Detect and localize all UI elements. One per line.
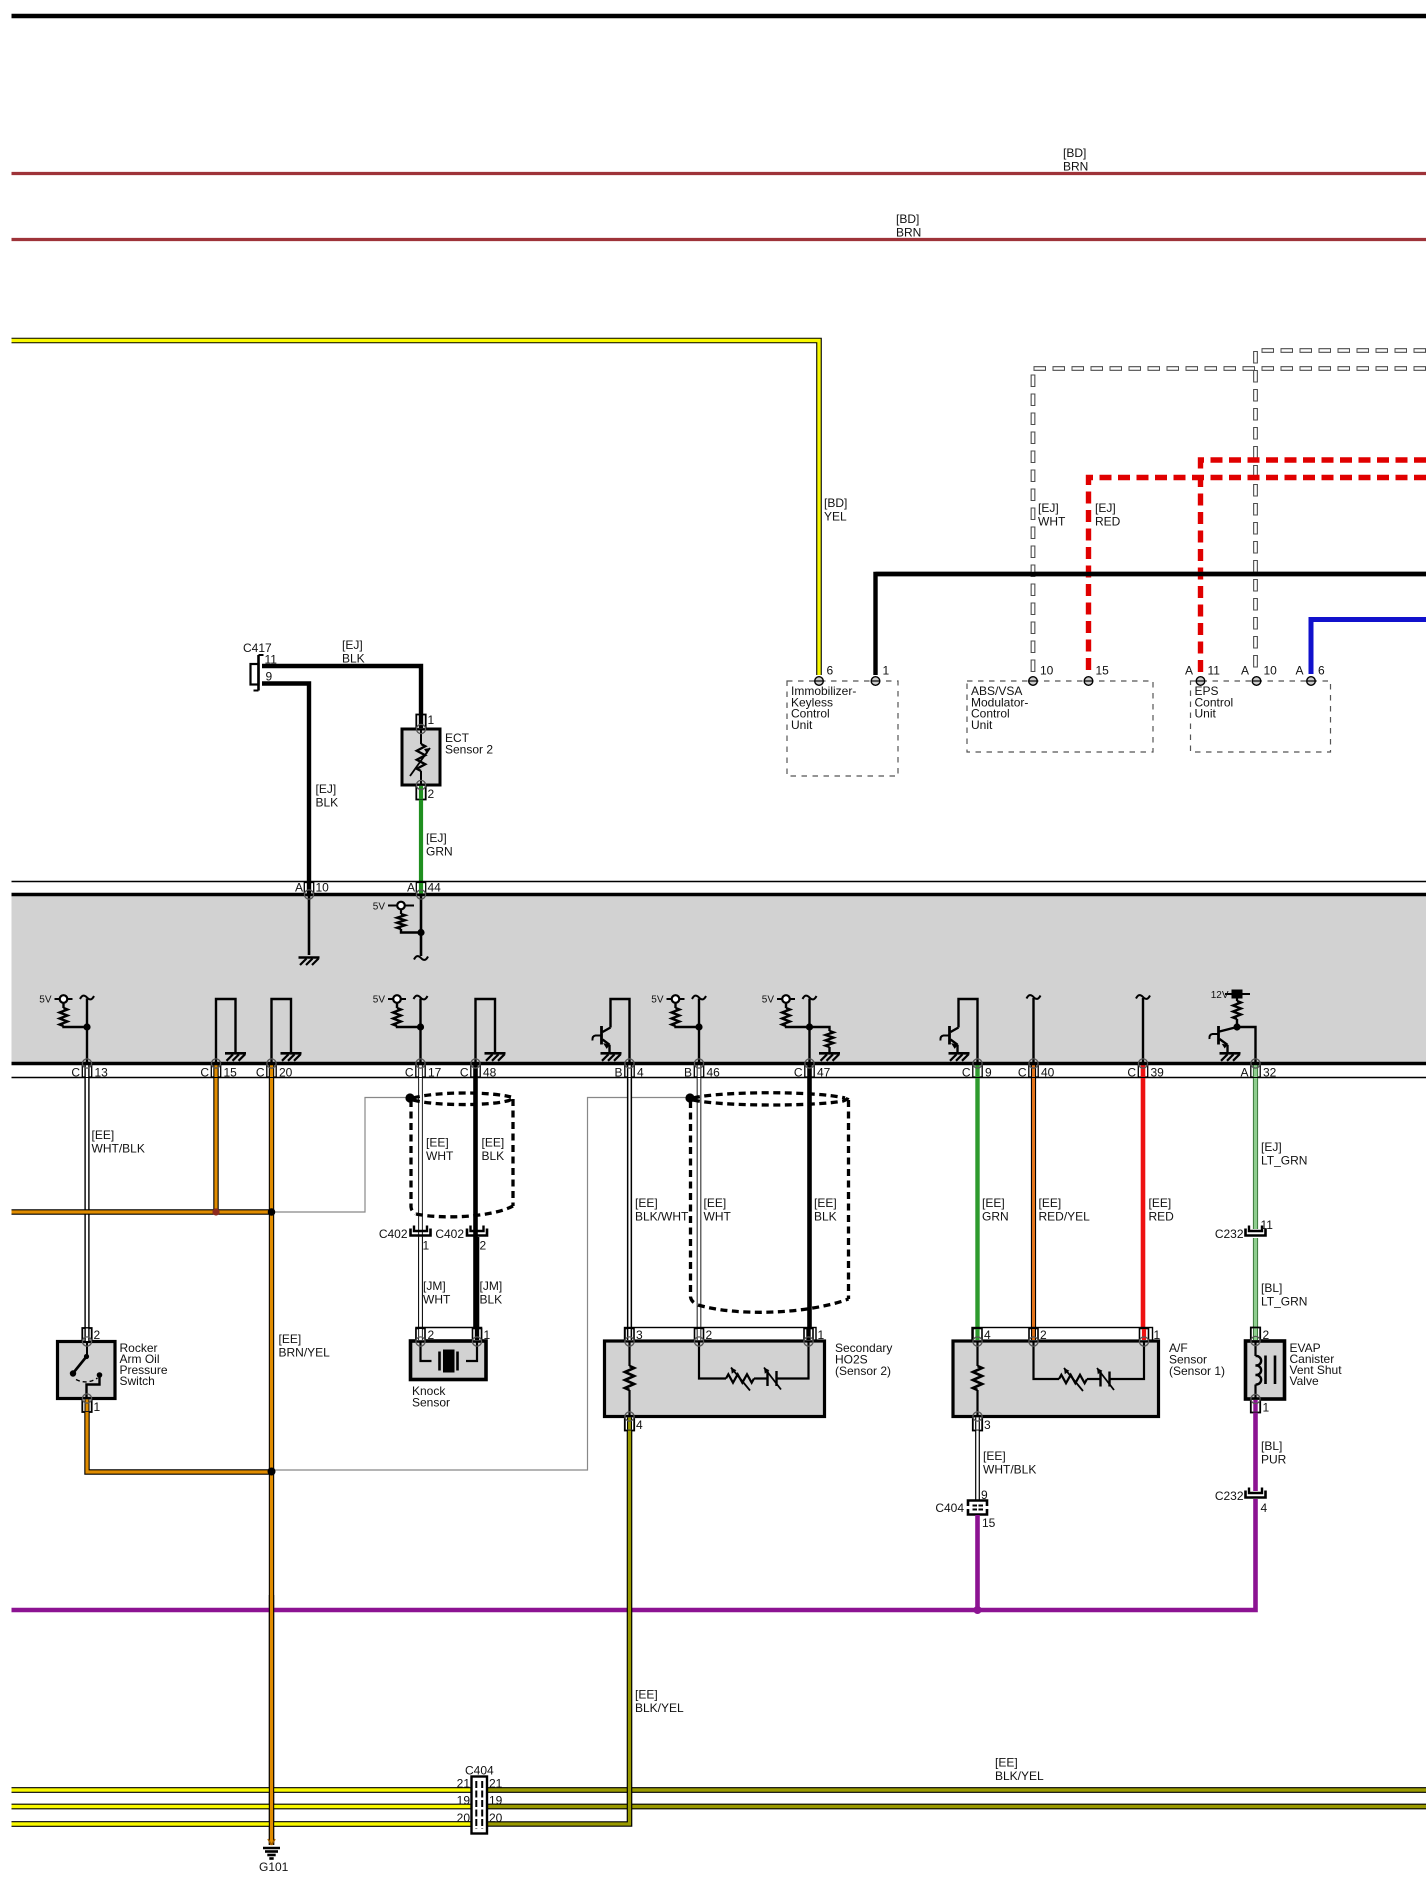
svg-text:GRN: GRN [426,845,453,859]
svg-text:BLK: BLK [342,652,365,666]
svg-text:B: B [614,1066,622,1080]
ECM B46 internal 5V pull-up [692,996,706,1000]
wire: [EE] WHT/BLK C13 to Rocker switch pin 2 [84,1078,89,1328]
ECM C9 internal transistor Q [959,999,978,1064]
svg-text:2: 2 [1040,1328,1047,1342]
svg-text:11: 11 [1208,664,1221,678]
svg-text:C: C [1127,1066,1136,1080]
shield (Secondary HO2S) [693,1093,845,1098]
svg-text:[EE]: [EE] [635,1688,658,1702]
svg-text:15: 15 [982,1516,996,1530]
svg-text:(Sensor 2): (Sensor 2) [835,1364,891,1378]
wire: bold dashed [EJ] RED to ABS/VSA pin 15 [1089,478,1426,675]
wire: [EE] BLK/WHT B4 to Secondary HO2S pin 3 [627,1078,632,1328]
svg-text:21: 21 [489,1777,503,1791]
junction C20/feed [268,1208,276,1216]
svg-text:4: 4 [637,1066,644,1080]
svg-text:5V: 5V [373,995,386,1006]
svg-text:47: 47 [817,1066,831,1080]
svg-text:BLK/WHT: BLK/WHT [635,1210,689,1224]
svg-text:C232: C232 [1215,1227,1244,1241]
svg-text:C: C [405,1066,414,1080]
pin C15 (ECM) [211,1065,220,1077]
wire: orange feed from left edge [12,1209,272,1214]
svg-text:Valve: Valve [1290,1374,1319,1388]
svg-text:[EJ]: [EJ] [426,831,447,845]
svg-text:Unit: Unit [791,718,813,732]
svg-text:2: 2 [428,787,435,801]
svg-text:[EE]: [EE] [92,1128,115,1142]
svg-text:WHT: WHT [426,1149,454,1163]
pin 4 (A/F) [973,1329,982,1342]
wire: purple bus [12,1499,1256,1610]
junction at C20 wire [268,1468,276,1476]
svg-text:9: 9 [985,1066,992,1080]
wire: [EJ] BLK from C417 pin 11 to ECT Sensor 2 pin 1 [262,666,421,714]
pin A6 (EPS) [1307,677,1316,686]
svg-text:RED/YEL: RED/YEL [1039,1210,1091,1224]
sensor: ECT Sensor 2 [402,729,440,785]
svg-text:C: C [1018,1066,1027,1080]
svg-text:[EE]: [EE] [704,1196,727,1210]
junction purple bus / C404 branch [974,1606,982,1614]
svg-text:BLK: BLK [482,1149,505,1163]
svg-text:BRN/YEL: BRN/YEL [279,1346,331,1360]
node A10 (ECM) : ground inside [308,896,311,955]
svg-text:[BD]: [BD] [896,212,919,226]
svg-text:B: B [684,1066,692,1080]
svg-text:WHT/BLK: WHT/BLK [92,1142,145,1156]
svg-text:BLK: BLK [480,1293,503,1307]
pin 3 (HO2S) [625,1329,634,1342]
svg-text:5V: 5V [373,902,386,913]
svg-text:C404: C404 [465,1764,494,1778]
svg-text:A: A [1295,664,1303,678]
svg-text:3: 3 [984,1418,991,1432]
svg-text:4: 4 [984,1328,991,1342]
svg-text:BLK: BLK [316,796,339,810]
svg-text:[BD]: [BD] [824,496,847,510]
wire: [EE] RED C39 to A/F sensor pin 1 [1141,1078,1146,1328]
connector C404 pins 21/19/20 [472,1777,488,1834]
ECM C17 internal 5V pull-up [414,996,428,1000]
svg-text:13: 13 [95,1066,109,1080]
svg-text:21: 21 [457,1777,471,1791]
svg-text:15: 15 [1096,664,1110,678]
pin 3 (A/F) [973,1417,982,1431]
svg-text:[EJ]: [EJ] [342,638,363,652]
pin 6 (Immobilizer) [815,677,824,686]
wire: [EE] BLK/YEL bus 21 (right) [488,1787,1426,1793]
pin C40 (ECM) [1029,1065,1038,1077]
svg-text:C: C [794,1066,803,1080]
svg-text:[EJ]: [EJ] [1261,1140,1282,1154]
ECM A32 internal 12V transistor driver [1232,990,1243,999]
svg-text:12V: 12V [1211,990,1229,1001]
svg-text:2: 2 [1263,1328,1270,1342]
svg-text:BLK/YEL: BLK/YEL [635,1701,684,1715]
svg-text:GRN: GRN [982,1210,1009,1224]
svg-text:[EJ]: [EJ] [316,782,337,796]
wire: bold dashed red to EPS pin A11 [1201,460,1426,674]
pin 2 (Knock Sensor) [416,1329,425,1342]
pin C20 (ECM) [267,1065,276,1077]
wire: [EE] BLK C47 to Secondary HO2S pin 1 [807,1078,812,1328]
pin A11 (EPS) [1196,677,1205,686]
svg-text:17: 17 [428,1066,442,1080]
connector C402 pin 1 [411,1229,431,1236]
svg-text:46: 46 [707,1066,721,1080]
svg-text:20: 20 [279,1066,293,1080]
svg-text:20: 20 [489,1811,503,1825]
svg-text:[EE]: [EE] [995,1756,1018,1770]
ECM B4 internal transistor Q [611,999,630,1064]
svg-text:[EJ]: [EJ] [1095,501,1116,515]
pin 2 (HO2S) [695,1329,704,1342]
wire: [EE] RED/YEL C40 to A/F sensor pin 2 [1031,1078,1036,1328]
node A44 (ECM) : 5V reference [420,896,423,956]
pin 4 (HO2S) [625,1417,634,1431]
svg-text:Unit: Unit [971,718,993,732]
pin C39 (ECM) [1138,1065,1147,1077]
svg-text:15: 15 [224,1066,238,1080]
svg-text:[JM]: [JM] [480,1279,503,1293]
svg-text:4: 4 [1261,1501,1268,1515]
svg-text:LT_GRN: LT_GRN [1261,1154,1307,1168]
ECM C48 internal ground loop [476,999,496,1064]
pin 1 (Immobilizer) [871,677,880,686]
wire: knock sensor shield drain [272,1098,407,1213]
svg-text:A: A [1185,664,1193,678]
svg-text:WHT: WHT [704,1210,732,1224]
pin 10 (ABS/VSA) [1029,677,1038,686]
svg-text:20: 20 [457,1811,471,1825]
box: ABS/VSA Modulator-Control Unit [967,681,1153,752]
svg-text:C: C [200,1066,209,1080]
svg-text:32: 32 [1263,1066,1277,1080]
wire: [EJ] GRN from ECT pin 2 to ECM A44 [419,800,423,894]
wire: yellow bus 21 (left) [12,1787,472,1793]
svg-text:C: C [71,1066,80,1080]
pin 2 (ECT Sensor 2) [416,785,425,800]
pin A32 (ECM) [1251,1065,1260,1077]
ECM C39 internal stub [1136,995,1150,999]
pin C17 (ECM) [416,1065,425,1077]
svg-text:[EJ]: [EJ] [1038,501,1059,515]
wire: [BD] BRN (upper maroon line) [12,172,1426,175]
connector C402 pin 2 [467,1229,487,1236]
svg-text:6: 6 [827,664,834,678]
svg-text:48: 48 [483,1066,497,1080]
pin 1 (A/F) [1140,1329,1149,1342]
svg-text:[EE]: [EE] [983,1449,1006,1463]
pin 2 (EVAP valve) [1251,1328,1260,1342]
pin C47 (ECM) [805,1065,814,1077]
svg-text:1: 1 [1154,1328,1161,1342]
svg-text:2: 2 [428,1328,435,1342]
wire: [EJ] BLK from C417 pin 9 to ECM A10 [262,684,309,894]
svg-text:WHT: WHT [1038,515,1066,529]
svg-text:[JM]: [JM] [423,1279,446,1293]
svg-text:A: A [1241,664,1249,678]
wire: [EE] WHT C17 to C402 pin 1 [418,1078,423,1329]
svg-text:WHT/BLK: WHT/BLK [983,1463,1036,1477]
svg-text:[EE]: [EE] [482,1136,505,1150]
svg-text:C402: C402 [435,1227,464,1241]
wire: yellow bus 19 (left) [12,1804,472,1810]
pin B4 (ECM) [625,1065,634,1077]
wire: [EE] GRN C9 to A/F sensor pin 4 [975,1078,979,1328]
svg-text:Switch: Switch [120,1374,155,1388]
svg-text:C402: C402 [379,1227,408,1241]
wire: black wire over-stroke at dash crossings [876,572,1426,576]
svg-text:1: 1 [1263,1401,1270,1415]
pin A10 (EPS) [1252,677,1261,686]
svg-text:C232: C232 [1215,1489,1244,1503]
connector C232 pin 11 [1246,1229,1266,1236]
svg-text:44: 44 [428,881,442,895]
switch: Rocker Arm Oil Pressure Switch [58,1342,116,1399]
pin C48 (ECM) [471,1065,480,1077]
svg-text:[BD]: [BD] [1063,146,1086,160]
wire: [EJ] LT_GRN A32 to C232 pin 11 [1253,1078,1258,1229]
svg-text:G101: G101 [259,1860,289,1874]
svg-text:[BL]: [BL] [1261,1439,1282,1453]
svg-text:Unit: Unit [1195,707,1217,721]
wire: [EE] WHT B46 to Secondary HO2S pin 2 [697,1078,702,1328]
svg-text:Sensor 2: Sensor 2 [445,743,493,757]
svg-text:C: C [460,1066,469,1080]
wire: [EE] BLK/YEL HO2S pin 4 down to C404 pin 20 [488,1431,630,1825]
wire: hollow-dashed WHT to ABS/VSA pin 10 [1033,369,1426,675]
ECM C13 internal 5V pull-up [80,996,94,1000]
wire: HO2S shield drain [272,1098,687,1471]
svg-text:[EE]: [EE] [1039,1196,1062,1210]
pin 1 (Rocker switch) [82,1399,91,1413]
svg-text:3: 3 [636,1328,643,1342]
wire: orange from Rocker pin 1 to C20 junction [87,1412,272,1472]
wire: [EE] BRN/YEL C20 down to G101 [269,1078,274,1845]
svg-text:2: 2 [480,1239,487,1253]
pin C9 (ECM) [973,1065,982,1077]
svg-text:LT_GRN: LT_GRN [1261,1295,1307,1309]
pin 2 (Rocker switch) [82,1328,91,1342]
wire: [JM] WHT C402 to knock pin 2 [418,1237,423,1329]
svg-text:BRN: BRN [1063,160,1088,174]
wire: hollow-dashed to EPS pin A10 [1256,351,1426,675]
svg-text:1: 1 [883,664,890,678]
svg-text:[EE]: [EE] [814,1196,837,1210]
pin C13 (ECM) [82,1065,91,1077]
pin 1 (Knock Sensor) [473,1329,482,1342]
pin 2 (A/F) [1029,1329,1038,1342]
svg-text:5V: 5V [39,995,52,1006]
wire: blue wire to EPS pin A6 [1311,620,1426,675]
svg-text:[EE]: [EE] [982,1196,1005,1210]
sensor: A/F Sensor (Sensor 1) [972,1328,1153,1342]
svg-text:9: 9 [981,1488,988,1502]
svg-text:[EE]: [EE] [426,1136,449,1150]
svg-text:[EE]: [EE] [1149,1196,1172,1210]
svg-text:5V: 5V [762,995,775,1006]
node: HO2S shield drain junction [685,1093,694,1102]
sensor: Knock Sensor [416,1328,482,1342]
svg-text:10: 10 [1040,664,1054,678]
svg-text:6: 6 [1318,664,1325,678]
wire: [EE] BRN/YEL C15 stub [213,1078,218,1212]
ECM C20 internal ground loop [272,999,292,1064]
ground G101 [268,1839,275,1845]
ECM C47 internal 5V pull-up with load resistor [803,996,817,1000]
svg-text:BLK/YEL: BLK/YEL [995,1769,1044,1783]
pin 15 (ABS/VSA) [1084,677,1093,686]
svg-text:PUR: PUR [1261,1453,1287,1467]
valve: EVAP Canister Vent Shut Valve [1246,1341,1285,1399]
svg-text:Sensor: Sensor [412,1396,450,1410]
svg-text:WHT: WHT [423,1293,451,1307]
wire: BRN/YEL over-stroke to G101 [269,1595,274,1845]
ECM C40 internal stub [1027,995,1041,999]
svg-text:19: 19 [457,1794,471,1808]
svg-text:10: 10 [316,881,330,895]
svg-text:[BL]: [BL] [1261,1281,1282,1295]
pin 1 (ECT Sensor 2) [416,715,425,730]
svg-text:A: A [1240,1066,1248,1080]
svg-text:(Sensor 1): (Sensor 1) [1169,1364,1225,1378]
svg-text:RED: RED [1095,515,1121,529]
wire: [BD] BRN (lower maroon line) [12,238,1426,241]
wire: [BD] YEL to Immobilizer pin 6 [12,341,820,676]
wire: [EE] BLK/YEL bus 19 (right) [488,1804,1426,1810]
svg-text:C: C [256,1066,265,1080]
node: knock shield drain junction [405,1093,414,1102]
wire: black bus line (top) [12,14,1426,19]
box: Immobilizer-Keyless Control Unit [787,681,898,776]
svg-text:A: A [407,881,415,895]
svg-text:40: 40 [1041,1066,1055,1080]
svg-text:1: 1 [818,1328,825,1342]
svg-text:RED: RED [1149,1210,1175,1224]
svg-text:19: 19 [489,1794,503,1808]
wire: [BL] LT_GRN C232 to EVAP valve pin 2 [1253,1238,1258,1328]
wire: [BL] PUR EVAP pin 1 to C232 pin 4 [1253,1413,1258,1492]
svg-text:1: 1 [423,1239,430,1253]
svg-text:2: 2 [94,1328,101,1342]
connector C232 pin 4 [1246,1491,1266,1498]
sensor: Secondary HO2S (Sensor 2) [625,1328,817,1342]
svg-text:1: 1 [428,713,435,727]
wire: [EE] BLK C48 to knock sensor pin 1 [473,1078,478,1329]
svg-text:5V: 5V [651,995,664,1006]
pin 1 (EVAP valve) [1251,1399,1260,1413]
ECM/PCM band [12,896,1426,1063]
svg-text:C: C [962,1066,971,1080]
svg-text:BLK: BLK [814,1210,837,1224]
svg-text:[EE]: [EE] [635,1196,658,1210]
svg-text:YEL: YEL [824,510,847,524]
svg-text:11: 11 [1261,1218,1274,1232]
wire: [BL] PUR C404 to purple bus [975,1515,980,1610]
pin 1 (HO2S) [804,1329,813,1342]
wire: [JM] BLK C402 to knock pin 1 [475,1237,480,1329]
svg-text:A: A [295,881,303,895]
wire: black wire to Immobilizer pin 1 [876,574,1426,675]
svg-text:1: 1 [94,1400,101,1414]
svg-text:2: 2 [706,1328,713,1342]
pin B46 (ECM) [694,1065,703,1077]
shield (knock sensor) [413,1093,511,1098]
svg-text:BRN: BRN [896,226,921,240]
svg-text:4: 4 [636,1418,643,1432]
wire: [EE] WHT/BLK A/F pin 3 to C404 pin 9 [975,1431,980,1501]
svg-text:39: 39 [1151,1066,1165,1080]
junction C15/feed [212,1208,219,1215]
ECM C15 internal ground loop [216,999,236,1064]
wire: yellow bus 20 (left) [12,1821,472,1827]
svg-text:1: 1 [484,1328,491,1342]
svg-text:C404: C404 [935,1501,964,1515]
svg-text:10: 10 [1264,664,1278,678]
box: EPS Control Unit [1191,681,1331,752]
connector C404 pin 9/15 [968,1501,987,1507]
svg-text:[EE]: [EE] [279,1332,302,1346]
